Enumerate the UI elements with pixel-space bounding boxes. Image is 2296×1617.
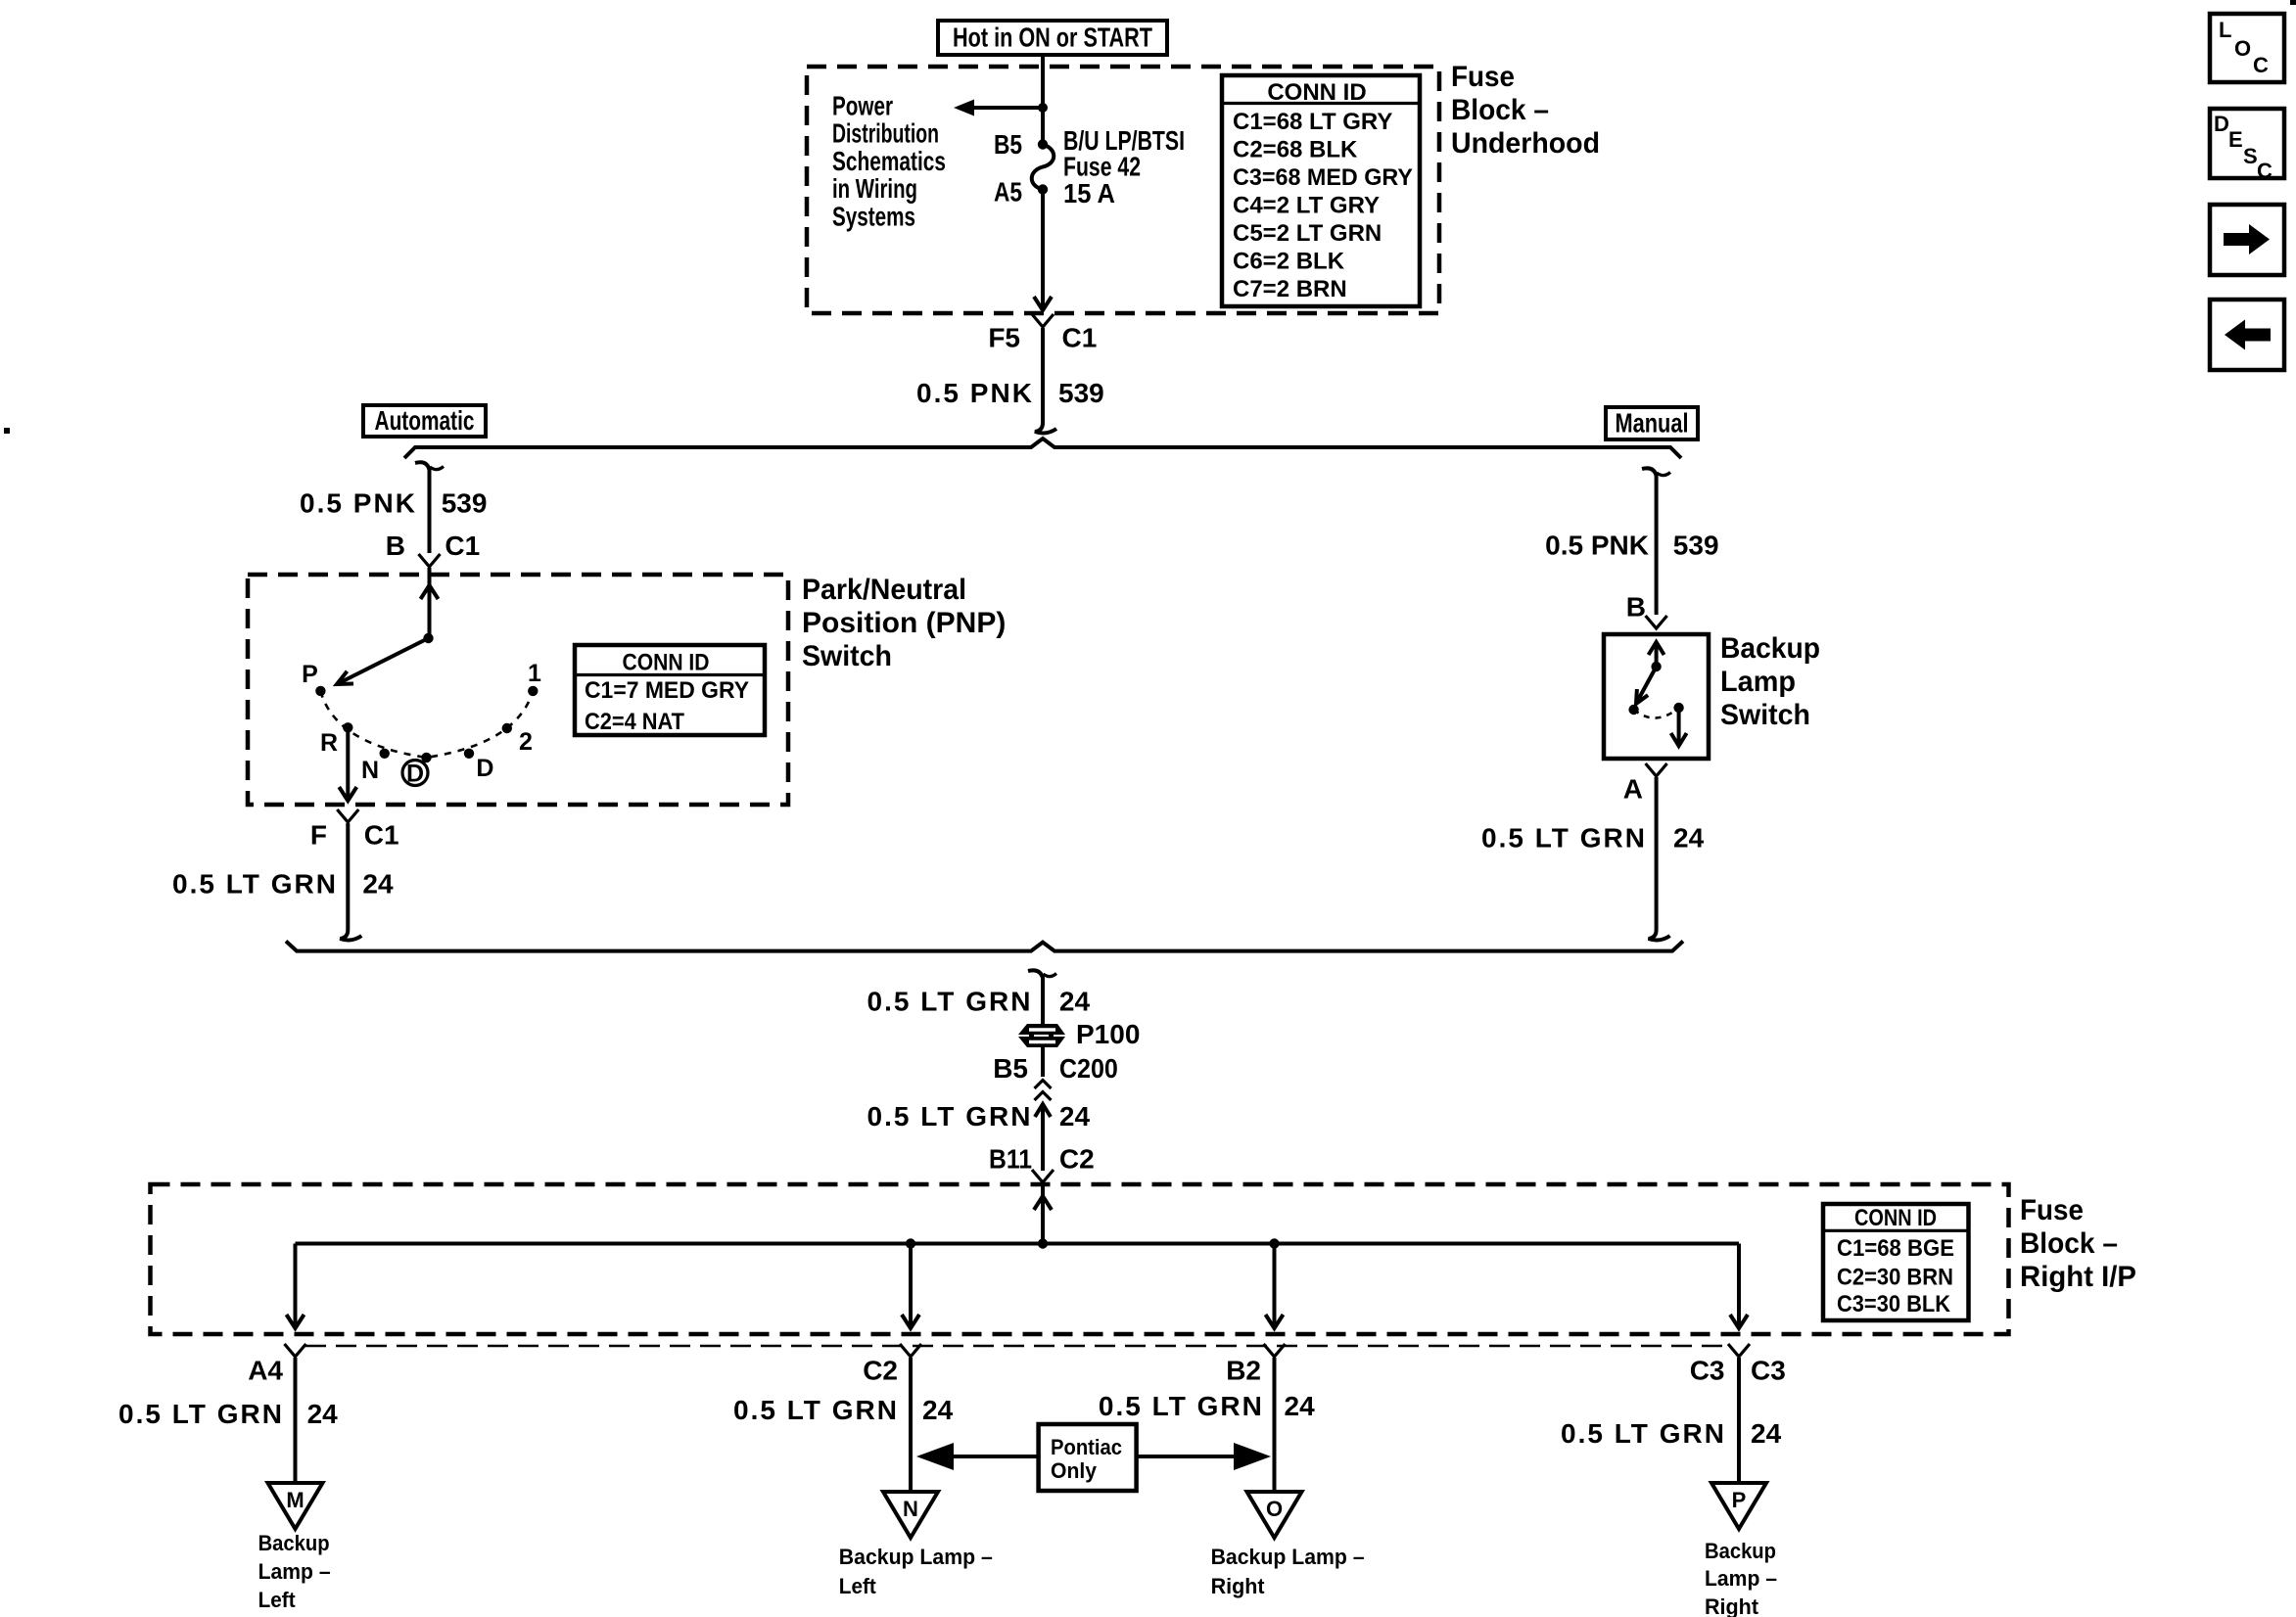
branch label box: Automatic — [363, 405, 486, 437]
svg-text:Backup: Backup — [258, 1531, 330, 1555]
splice triangle M (backup lamp left) — [268, 1483, 323, 1529]
backup lamp switch: input arrow up — [1649, 642, 1664, 667]
label: Fuse Block - Underhood — [1451, 61, 1600, 160]
svg-text:C: C — [2253, 53, 2269, 77]
icon: LOC — [2210, 14, 2284, 82]
svg-text:15 A: 15 A — [1063, 178, 1115, 208]
distribution split line (top) — [404, 439, 1681, 458]
svg-text:Left: Left — [839, 1574, 877, 1598]
svg-text:24: 24 — [362, 868, 394, 899]
svg-text:CONN ID: CONN ID — [1267, 79, 1366, 106]
svg-text:C3=68 MED GRY: C3=68 MED GRY — [1233, 164, 1413, 191]
PNP contact N — [361, 749, 390, 784]
svg-text:B5: B5 — [993, 1053, 1028, 1084]
svg-text:Lamp: Lamp — [1720, 666, 1796, 698]
svg-text:C2=30 BRN: C2=30 BRN — [1837, 1265, 1953, 1291]
svg-text:in Wiring: in Wiring — [832, 173, 917, 204]
svg-text:Power: Power — [832, 91, 893, 121]
svg-text:C3: C3 — [1751, 1356, 1786, 1386]
svg-text:C1=68 LT GRY: C1=68 LT GRY — [1233, 109, 1392, 135]
svg-text:0.5 LT GRN: 0.5 LT GRN — [1481, 822, 1645, 853]
svg-text:B11: B11 — [989, 1144, 1032, 1175]
svg-text:C1=68 BGE: C1=68 BGE — [1837, 1235, 1954, 1262]
wire 24 to backup lamp right (B2) — [1099, 1358, 1315, 1492]
park/neutral position switch (dashed outline) — [248, 575, 788, 805]
svg-text:Distribution: Distribution — [832, 118, 939, 149]
pontiac arrow left — [916, 1443, 1039, 1470]
backup lamp switch: movable contact arrow — [1636, 667, 1657, 704]
svg-text:CONN ID: CONN ID — [1854, 1205, 1937, 1231]
svg-text:C2=68 BLK: C2=68 BLK — [1233, 137, 1358, 163]
icon: previous arrow — [2210, 300, 2284, 370]
fuse F42 pin B5 — [994, 129, 1048, 160]
svg-text:C1: C1 — [1062, 323, 1098, 353]
svg-text:0.5 PNK: 0.5 PNK — [916, 378, 1032, 408]
connector C2 (drop) — [863, 1344, 921, 1386]
svg-text:0.5 PNK: 0.5 PNK — [1545, 530, 1649, 560]
svg-text:Only: Only — [1051, 1458, 1098, 1483]
wire 24 to backup lamp left (C2) — [733, 1358, 954, 1492]
connector B2 (drop) — [1226, 1344, 1285, 1386]
conn id table (underhood) — [1222, 75, 1420, 306]
merge line (bottom of branches) — [286, 942, 1683, 951]
drop B2: wire with down arrow — [1266, 1244, 1284, 1329]
svg-text:C7=2 BRN: C7=2 BRN — [1233, 276, 1347, 302]
backup lamp switch: right contact — [1673, 703, 1683, 713]
svg-text:Lamp –: Lamp – — [258, 1559, 331, 1584]
wire 24 to backup lamp left (A4) — [118, 1358, 338, 1483]
svg-text:539: 539 — [1058, 378, 1104, 408]
scan mark top right — [2290, 0, 2296, 5]
svg-text:C2=4 NAT: C2=4 NAT — [585, 709, 684, 735]
conn id table (right I/P) — [1823, 1204, 1969, 1320]
connector B / C1 (PNP switch) — [386, 531, 480, 567]
svg-text:Fuse: Fuse — [1451, 61, 1515, 93]
wire into PNP switch with up arrow — [421, 568, 439, 638]
PNP contact 2 — [502, 723, 533, 756]
svg-text:Fuse: Fuse — [2020, 1194, 2084, 1226]
svg-text:0.5 LT GRN: 0.5 LT GRN — [1099, 1391, 1262, 1421]
svg-text:Underhood: Underhood — [1451, 127, 1600, 160]
icon: next arrow — [2210, 205, 2284, 275]
backup lamp switch: contact arc (dashed) — [1634, 708, 1679, 718]
svg-text:A5: A5 — [994, 177, 1022, 208]
svg-text:24: 24 — [307, 1399, 339, 1429]
svg-text:24: 24 — [1751, 1418, 1782, 1449]
svg-text:C1=7 MED GRY: C1=7 MED GRY — [585, 677, 749, 704]
wire below P100 — [1041, 1047, 1045, 1077]
junction dot B11 feed — [1038, 1238, 1048, 1248]
wire 24: 0.5 LT GRN automatic — [172, 823, 394, 940]
svg-text:B: B — [1626, 592, 1646, 623]
svg-text:Automatic: Automatic — [375, 405, 475, 436]
backup lamp switch: output arrow down — [1671, 708, 1687, 746]
caption: Backup Lamp - Right (P) — [1705, 1539, 1777, 1617]
svg-text:B5: B5 — [994, 129, 1022, 160]
junction dot B2 drop — [1269, 1238, 1279, 1248]
connector F5 / C1 (chevron) — [988, 314, 1097, 353]
note box: Pontiac Only — [1039, 1424, 1137, 1491]
junction dot C2 drop — [906, 1238, 915, 1248]
svg-text:Backup: Backup — [1720, 632, 1820, 665]
svg-text:0.5 LT GRN: 0.5 LT GRN — [733, 1395, 897, 1425]
connector C3 / C3 (drop) — [1690, 1344, 1786, 1386]
svg-text:Manual: Manual — [1616, 408, 1689, 439]
svg-text:N: N — [361, 757, 379, 784]
pontiac arrow right — [1137, 1443, 1271, 1470]
svg-text:C6=2 BLK: C6=2 BLK — [1233, 249, 1345, 275]
svg-text:C4=2 LT GRY: C4=2 LT GRY — [1233, 193, 1380, 219]
connector pin A (below switch) — [1623, 763, 1667, 805]
fuse block underhood (dashed outline) — [807, 67, 1439, 313]
title box: Hot in ON or START — [938, 21, 1167, 55]
splice triangle N (backup lamp left) — [883, 1492, 938, 1538]
PNP contact D2 — [464, 749, 494, 782]
svg-text:L: L — [2219, 18, 2231, 42]
PNP rotor arm (arrow to P) — [337, 638, 429, 684]
junction node (to power distribution) — [1038, 103, 1048, 113]
svg-text:D: D — [2214, 112, 2229, 136]
PNP contact R — [320, 722, 353, 757]
svg-text:539: 539 — [1673, 530, 1719, 560]
label: Park/Neutral Position (PNP) Switch — [802, 574, 1006, 672]
label: Fuse Block - Right I/P — [2020, 1194, 2136, 1293]
svg-text:CONN ID: CONN ID — [623, 650, 710, 676]
svg-text:Switch: Switch — [802, 640, 892, 672]
wire from contact R down, arrow at box edge — [339, 727, 356, 801]
svg-text:Fuse 42: Fuse 42 — [1063, 152, 1141, 182]
svg-text:0.5 LT GRN: 0.5 LT GRN — [118, 1399, 282, 1429]
wire 24: merged feed to P100 — [867, 970, 1091, 1024]
label: Backup Lamp Switch — [1720, 632, 1820, 731]
svg-text:Position (PNP): Position (PNP) — [802, 607, 1006, 639]
PNP rotor pivot — [423, 633, 433, 643]
svg-text:C3: C3 — [1690, 1356, 1725, 1386]
wire 539 automatic branch — [300, 462, 487, 553]
svg-text:Pontiac: Pontiac — [1051, 1435, 1122, 1459]
backup lamp switch box — [1604, 634, 1709, 759]
svg-text:Systems: Systems — [832, 202, 915, 232]
svg-text:Lamp –: Lamp – — [1705, 1566, 1777, 1591]
connector A4 — [248, 1344, 305, 1386]
svg-text:P: P — [1732, 1488, 1747, 1512]
svg-text:Backup Lamp –: Backup Lamp – — [1211, 1545, 1365, 1569]
svg-text:P: P — [302, 661, 318, 688]
svg-text:S: S — [2243, 144, 2258, 168]
svg-text:539: 539 — [442, 488, 488, 519]
PNP contact 1 — [528, 660, 541, 696]
svg-text:R: R — [320, 729, 338, 757]
fuse F42 pin A5 — [994, 177, 1048, 208]
drop C2: wire with down arrow — [902, 1244, 919, 1329]
svg-text:Right: Right — [1705, 1594, 1759, 1617]
svg-text:Hot in ON or START: Hot in ON or START — [953, 23, 1152, 53]
svg-text:F5: F5 — [988, 323, 1020, 353]
drop A4: wire with down arrow — [287, 1244, 305, 1329]
svg-text:O: O — [1266, 1497, 1283, 1521]
svg-text:0.5 LT GRN: 0.5 LT GRN — [1561, 1418, 1724, 1449]
svg-text:2: 2 — [519, 728, 533, 756]
bus line inside fuse block — [296, 1242, 1740, 1246]
svg-text:24: 24 — [1059, 987, 1091, 1017]
svg-text:Switch: Switch — [1720, 699, 1810, 731]
svg-text:Backup: Backup — [1705, 1539, 1776, 1563]
wire feed into fuse block with up arrow — [1034, 1183, 1052, 1243]
wire 24 to fuse block with up arrow — [867, 1101, 1091, 1171]
svg-text:0.5 LT GRN: 0.5 LT GRN — [867, 1101, 1031, 1132]
svg-text:C2: C2 — [863, 1356, 898, 1386]
drop C3: wire with down arrow — [1730, 1244, 1748, 1329]
svg-text:0.5 LT GRN: 0.5 LT GRN — [867, 987, 1031, 1017]
svg-text:P100: P100 — [1076, 1019, 1140, 1049]
connector C200 pins B5 (double chevron) — [993, 1053, 1118, 1100]
connector face line (thin dashed) — [305, 1345, 1728, 1348]
svg-text:24: 24 — [1285, 1391, 1316, 1421]
svg-text:24: 24 — [1059, 1101, 1091, 1132]
svg-text:B2: B2 — [1226, 1356, 1261, 1386]
icon: DESC — [2210, 109, 2284, 183]
caption: Backup Lamp - Right (O) — [1211, 1545, 1365, 1598]
svg-text:Right I/P: Right I/P — [2020, 1261, 2136, 1293]
scan mark left edge — [4, 428, 10, 434]
wire 539: 0.5 PNK below connector — [916, 328, 1104, 433]
caption: Backup Lamp - Left (N) — [839, 1545, 993, 1598]
wire: tap to power distribution with left arrow — [954, 100, 1043, 116]
svg-text:24: 24 — [922, 1395, 954, 1425]
svg-text:Park/Neutral: Park/Neutral — [802, 574, 966, 606]
svg-text:N: N — [903, 1497, 918, 1521]
svg-text:Left: Left — [258, 1588, 297, 1612]
svg-text:C1: C1 — [445, 531, 480, 561]
PNP contact arc (dashed) — [320, 691, 533, 758]
backup lamp switch: pivot — [1651, 662, 1661, 671]
caption: Backup Lamp - Left (M) — [258, 1531, 331, 1612]
splice triangle P (backup lamp right) — [1711, 1483, 1766, 1529]
svg-text:A4: A4 — [248, 1356, 283, 1386]
wire 539 manual branch — [1545, 468, 1718, 615]
wire: fuse output down to connector, arrow down — [1034, 190, 1052, 311]
svg-text:D: D — [476, 755, 493, 782]
svg-text:Block –: Block – — [1451, 94, 1549, 126]
svg-text:24: 24 — [1673, 822, 1705, 853]
svg-text:C5=2 LT GRN: C5=2 LT GRN — [1233, 220, 1382, 247]
svg-text:C1: C1 — [364, 820, 399, 851]
svg-text:C200: C200 — [1059, 1053, 1118, 1084]
fuse block right I/P (dashed outline) — [151, 1184, 2009, 1334]
svg-text:0.5 LT GRN: 0.5 LT GRN — [172, 868, 336, 899]
svg-text:Right: Right — [1211, 1574, 1266, 1598]
connector F / C1 (below PNP) — [310, 809, 399, 851]
svg-text:0.5 PNK: 0.5 PNK — [300, 488, 415, 519]
svg-text:B: B — [386, 531, 405, 561]
svg-text:M: M — [286, 1488, 304, 1512]
conn id table (PNP) — [575, 645, 765, 735]
svg-text:C: C — [2257, 159, 2273, 183]
splice triangle O (backup lamp right) — [1247, 1492, 1302, 1538]
note: power distribution schematics — [832, 91, 946, 232]
grommet P100 — [1018, 1019, 1140, 1049]
svg-text:D: D — [406, 761, 424, 788]
svg-text:E: E — [2228, 127, 2243, 152]
svg-text:1: 1 — [528, 660, 541, 687]
svg-text:A: A — [1623, 774, 1643, 805]
backup lamp switch: left contact — [1628, 705, 1638, 715]
connector B11 / C2 (chevron) — [989, 1144, 1095, 1182]
wire: ignition feed from title box to fuse — [1041, 55, 1045, 144]
svg-text:Backup Lamp –: Backup Lamp – — [839, 1545, 993, 1569]
branch label box: Manual — [1606, 407, 1698, 439]
svg-text:C2: C2 — [1059, 1144, 1095, 1175]
svg-text:F: F — [310, 820, 327, 851]
PNP contact P — [302, 661, 325, 696]
wire 24 to backup lamp right (C3) — [1561, 1358, 1782, 1483]
wire 24: 0.5 LT GRN manual — [1481, 777, 1705, 940]
svg-text:Schematics: Schematics — [832, 146, 946, 176]
PNP contact D (drive, circled) — [402, 753, 432, 788]
svg-text:Block –: Block – — [2020, 1227, 2118, 1260]
connector pin B (backup lamp switch) — [1626, 592, 1667, 628]
svg-text:C3=30 BLK: C3=30 BLK — [1837, 1291, 1951, 1317]
svg-text:O: O — [2234, 36, 2251, 61]
fuse B/U LP/BTSI Fuse 42 15A (S-curve symbol) — [1032, 125, 1185, 208]
